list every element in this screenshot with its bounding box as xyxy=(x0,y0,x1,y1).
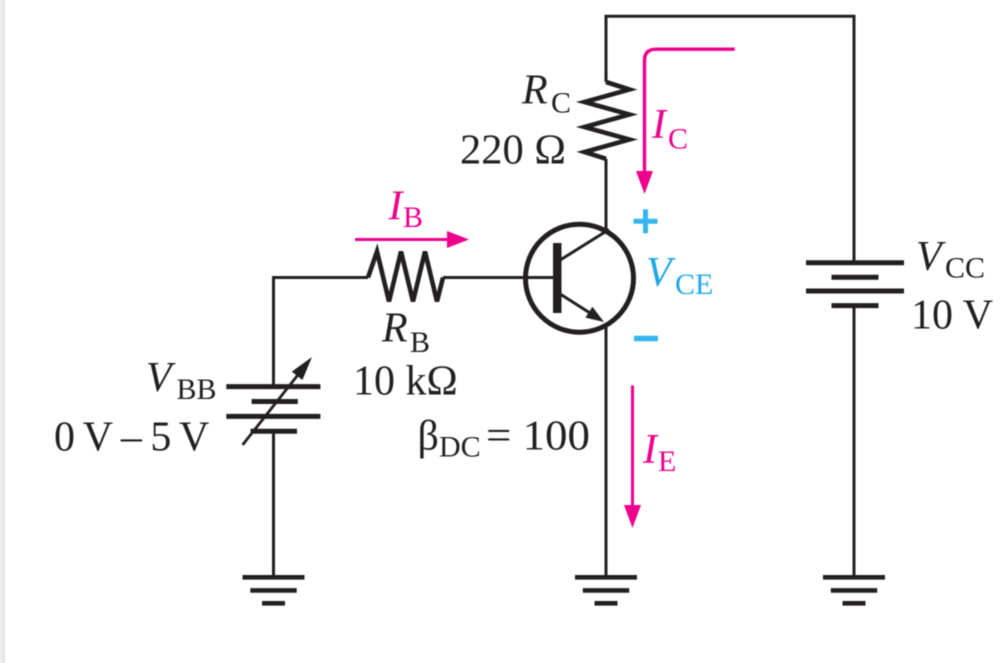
label beta DC = 100 xyxy=(418,414,591,464)
label IC xyxy=(651,102,688,156)
ground 3 (VCC) xyxy=(823,577,885,603)
plus sign VCE xyxy=(634,209,658,233)
wire emitter lead xyxy=(605,324,608,577)
svg-text:BB: BB xyxy=(177,373,217,406)
battery VBB variable arrow xyxy=(243,357,312,445)
label IE xyxy=(642,427,676,478)
svg-text:V: V xyxy=(916,234,946,280)
svg-text:B: B xyxy=(410,326,430,359)
ground 2 (emitter) xyxy=(575,577,637,603)
wire VCC bottom lead xyxy=(853,306,856,577)
transistor Q1 collector stroke xyxy=(557,230,609,263)
svg-text:C: C xyxy=(668,123,688,156)
svg-text:B: B xyxy=(403,201,423,234)
ground 1 (VBB) xyxy=(243,577,305,603)
svg-text:DC: DC xyxy=(439,431,481,464)
battery VCC xyxy=(806,263,904,306)
svg-text:I: I xyxy=(388,184,405,230)
svg-text:CC: CC xyxy=(945,252,985,285)
svg-text:10 V: 10 V xyxy=(911,293,993,339)
page edge strip xyxy=(0,0,5,663)
current arrow IE xyxy=(624,385,641,528)
svg-text:V: V xyxy=(146,355,176,401)
resistor RC xyxy=(585,82,630,159)
svg-text:V: V xyxy=(646,250,676,296)
wire base lead xyxy=(443,276,553,279)
svg-text:0 V – 5 V: 0 V – 5 V xyxy=(54,415,209,461)
wire top rail from collector branch to VCC xyxy=(606,16,854,263)
label RC xyxy=(521,68,571,120)
wire from VBB corner to RB xyxy=(272,276,368,279)
svg-text:R: R xyxy=(521,68,548,114)
label VCE xyxy=(646,250,713,301)
transistor Q1 emitter stroke with arrowhead xyxy=(557,292,604,322)
battery VBB xyxy=(226,387,320,432)
svg-text:220 Ω: 220 Ω xyxy=(460,128,566,174)
svg-text:E: E xyxy=(658,445,676,478)
transistor Q1 circle xyxy=(526,224,634,332)
svg-text:= 100: = 100 xyxy=(486,414,590,460)
label VCC xyxy=(916,234,985,285)
label RB xyxy=(381,306,430,360)
current arrow IC hook xyxy=(636,49,735,194)
svg-text:CE: CE xyxy=(675,268,713,301)
wire VBB top lead xyxy=(272,276,275,387)
svg-text:10 kΩ: 10 kΩ xyxy=(353,359,458,405)
wire VBB bottom lead xyxy=(272,431,275,577)
transistor Q1 base bar xyxy=(553,243,562,313)
svg-text:I: I xyxy=(642,427,659,473)
svg-text:R: R xyxy=(381,306,408,352)
label IB xyxy=(388,184,424,235)
svg-text:C: C xyxy=(551,87,571,120)
current arrow IB xyxy=(355,231,469,248)
label VBB xyxy=(146,355,217,406)
svg-text:I: I xyxy=(651,102,668,148)
wire collector lead xyxy=(605,159,608,232)
resistor RB xyxy=(368,252,443,302)
minus sign VCE xyxy=(634,336,658,342)
svg-text:β: β xyxy=(418,414,439,460)
